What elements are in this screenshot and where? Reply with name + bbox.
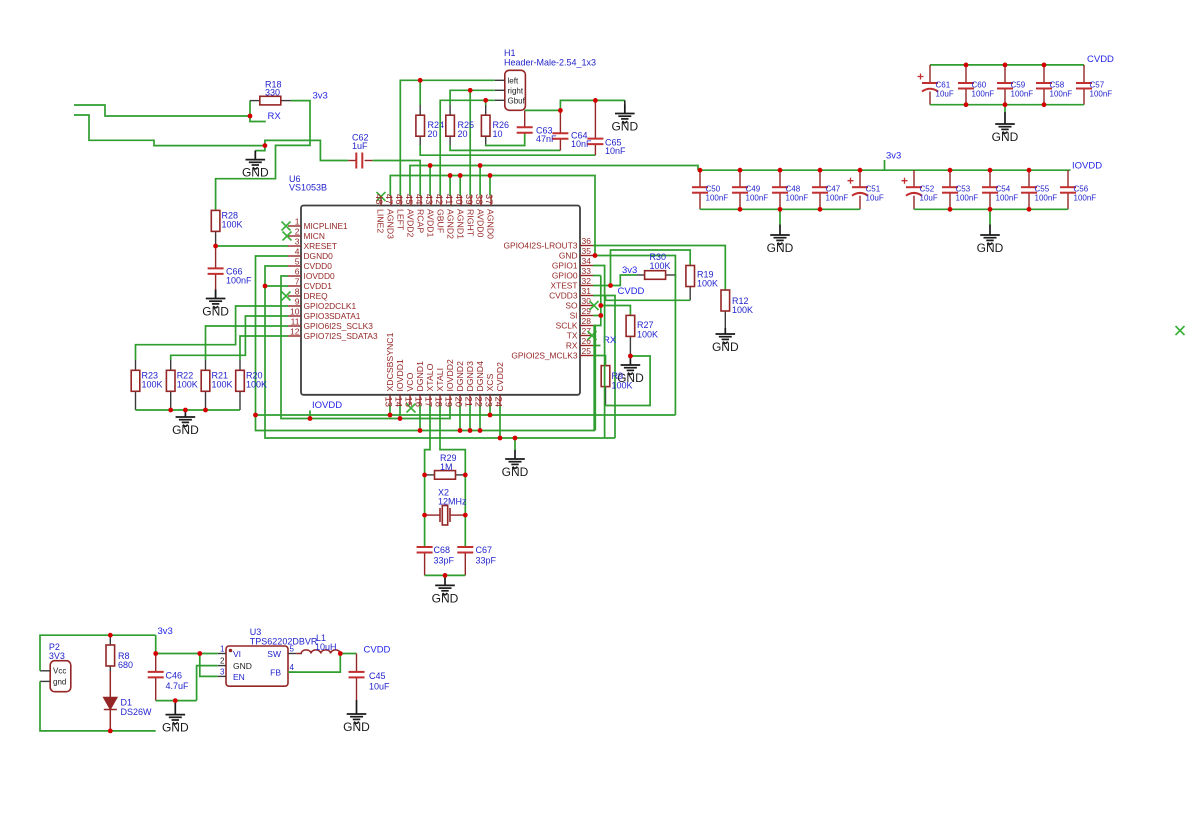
resistor R25 leads <box>449 105 451 115</box>
svg-text:GPIO6I2S_SCLK3: GPIO6I2S_SCLK3 <box>304 321 374 331</box>
svg-text:SW: SW <box>267 649 281 659</box>
capacitor C56 leads <box>1067 170 1069 187</box>
resistor R30 <box>645 271 666 280</box>
junction - pin40 AGND1 <box>458 173 463 178</box>
svg-text:20: 20 <box>453 397 464 408</box>
wire - RCAP net C62 to pin 44 <box>373 161 421 196</box>
svg-text:GND: GND <box>432 591 459 605</box>
no-connect X pin 15 VCO <box>407 404 416 413</box>
junction - pin38 AVDD0 <box>478 163 483 168</box>
junction - pin29 SI <box>598 313 603 318</box>
capacitor C65 leads <box>594 100 596 138</box>
junction - C50 top <box>698 168 703 173</box>
svg-text:100nF: 100nF <box>826 194 849 203</box>
junction - W0 left <box>253 413 258 418</box>
svg-text:MICPLINE1: MICPLINE1 <box>304 221 349 231</box>
wire - U3 GND pin down <box>197 666 218 701</box>
junction <box>988 207 993 212</box>
svg-text:right: right <box>508 87 524 96</box>
junction - X2 right <box>463 513 468 518</box>
ground (header caps) <box>615 105 635 123</box>
resistor R18 <box>260 96 281 105</box>
svg-text:AGND1: AGND1 <box>456 209 466 239</box>
wire - pin 13 drop <box>389 405 391 415</box>
junction - C51 top <box>858 168 863 173</box>
svg-text:MICN: MICN <box>304 231 325 241</box>
wire - 3v3 label stub <box>884 160 886 170</box>
wire - gnd bottom rail from P2 gnd <box>40 681 156 731</box>
svg-text:100nF: 100nF <box>786 194 809 203</box>
wire - cap ground bus to GND <box>560 100 624 110</box>
wire - to C45/CVDD <box>340 653 356 655</box>
wire - pin 41 drop <box>449 176 451 196</box>
wire - IOVDD label stub <box>309 411 311 419</box>
junction <box>948 207 953 212</box>
svg-text:GBUF: GBUF <box>436 209 446 233</box>
no-connect X pin 27 TX <box>588 331 597 340</box>
wire - 3v3 top rail from P2 Vcc <box>40 635 156 671</box>
junction - R29 left <box>422 473 427 478</box>
svg-text:100nF: 100nF <box>1090 90 1113 99</box>
wire - pin 28 SCLK <box>593 325 595 327</box>
wire - pin 23 drop <box>489 405 491 415</box>
junction - C49 top <box>738 168 743 173</box>
wire - XTEST to R30 left / 3v3 <box>611 275 638 286</box>
junction <box>778 207 783 212</box>
svg-text:VS1053B: VS1053B <box>289 183 327 193</box>
svg-text:35: 35 <box>582 246 592 256</box>
svg-text:AVDD0: AVDD0 <box>476 209 486 237</box>
svg-text:2: 2 <box>220 657 225 666</box>
capacitor C57 <box>1076 83 1092 89</box>
svg-text:C53: C53 <box>956 185 971 194</box>
resistor R8 <box>106 645 115 666</box>
resistor R24 leads <box>419 105 421 115</box>
U6 top pin names <box>376 209 496 239</box>
svg-text:GPIO4I2S-LROUT3: GPIO4I2S-LROUT3 <box>503 241 577 251</box>
wire - GPIO2 pin9 to R23 <box>136 306 289 360</box>
svg-text:D1: D1 <box>121 698 133 708</box>
svg-text:CVDD: CVDD <box>364 645 391 656</box>
junction - C55 top <box>1027 168 1032 173</box>
svg-text:XDCSBSYNC1: XDCSBSYNC1 <box>385 332 395 391</box>
svg-text:3v3: 3v3 <box>158 626 173 637</box>
svg-text:36: 36 <box>582 236 592 246</box>
capacitor C57 leads <box>1083 65 1085 83</box>
junction - R27 bottom / GND <box>628 354 633 359</box>
resistor R30 leads <box>637 274 645 276</box>
svg-text:DGND0: DGND0 <box>304 251 334 261</box>
junction - R27 top / SO node <box>598 303 603 308</box>
svg-text:100nF: 100nF <box>1035 194 1058 203</box>
wire - CVDD rail bottom <box>930 104 1084 106</box>
wire - pin 14 drop <box>399 405 401 419</box>
svg-text:GND: GND <box>343 720 370 734</box>
resistor R20 <box>236 370 245 391</box>
junction - D1 bottom <box>108 729 113 734</box>
svg-text:100K: 100K <box>637 330 658 340</box>
svg-text:GND: GND <box>502 465 529 479</box>
svg-text:C67: C67 <box>476 545 493 555</box>
junction <box>818 207 823 212</box>
resistor R26 <box>481 115 490 136</box>
svg-text:5: 5 <box>290 645 295 654</box>
svg-text:100nF: 100nF <box>1011 90 1034 99</box>
svg-text:C58: C58 <box>1050 81 1065 90</box>
junction - C59 top <box>1003 63 1008 68</box>
svg-text:AGND3: AGND3 <box>386 209 396 239</box>
resistor R29 leads <box>425 474 435 476</box>
capacitor C47 <box>812 187 828 193</box>
svg-text:1: 1 <box>295 217 300 227</box>
wire - pin 43 drop <box>429 166 431 196</box>
svg-text:100nF: 100nF <box>746 194 769 203</box>
junction - GND net <box>263 143 268 148</box>
capacitor C62 <box>356 153 362 169</box>
wire - right channel after R25 to C64 <box>450 145 560 150</box>
svg-text:DGND3: DGND3 <box>465 361 475 392</box>
capacitor C62 leads <box>348 160 356 162</box>
ground (CVDD bank) <box>995 112 1015 133</box>
svg-text:3v3: 3v3 <box>622 265 637 276</box>
junction - C48 top <box>778 168 783 173</box>
svg-text:32: 32 <box>582 276 592 286</box>
no-connect X pin 2 MICN <box>283 232 292 241</box>
svg-text:IOVDD: IOVDD <box>1072 161 1102 172</box>
U6 bottom pin stubs <box>390 395 500 405</box>
no-connect X pin 8 DREQ <box>282 292 291 301</box>
junction - pin20 DGND <box>458 428 463 433</box>
wire - 3v3 down to VI rail <box>155 635 157 653</box>
ground (R20-R23) <box>176 410 196 426</box>
svg-text:100nF: 100nF <box>1074 194 1097 203</box>
junction - C58 top <box>1042 63 1047 68</box>
wire - RX label stub <box>250 116 266 122</box>
capacitor C65 <box>587 139 603 145</box>
svg-text:3v3: 3v3 <box>313 91 328 102</box>
svg-text:33pF: 33pF <box>434 556 455 566</box>
svg-text:C60: C60 <box>972 81 987 90</box>
capacitor C68 leads <box>424 553 426 576</box>
svg-text:C49: C49 <box>746 185 761 194</box>
svg-text:CVDD2: CVDD2 <box>495 362 505 392</box>
svg-text:U3: U3 <box>250 627 262 637</box>
U6 left pin stubs <box>288 226 301 336</box>
svg-text:1: 1 <box>220 645 225 654</box>
wire - pin 21 drop <box>469 405 471 431</box>
svg-text:20: 20 <box>458 129 468 139</box>
svg-text:42: 42 <box>433 194 444 205</box>
resistor R23 leads <box>135 360 137 370</box>
svg-text:DGND2: DGND2 <box>455 361 465 392</box>
junction - pin22 DGND <box>478 428 483 433</box>
capacitor C50 <box>692 187 708 193</box>
svg-text:28: 28 <box>582 316 592 326</box>
wire - XTEST to R19 top <box>611 250 691 286</box>
svg-text:17: 17 <box>423 397 434 408</box>
svg-text:AVDD2: AVDD2 <box>406 209 416 237</box>
ground (top left) <box>246 151 266 169</box>
resistor R12 leads <box>724 311 726 333</box>
wire - GND pin35 to W0 right riser <box>593 256 675 416</box>
svg-text:CVDD3: CVDD3 <box>549 291 578 301</box>
capacitor C63 <box>517 127 533 133</box>
svg-text:SCLK: SCLK <box>556 321 578 331</box>
wire - GND symbol stub <box>255 146 265 151</box>
no-connect X pin 30 SO <box>590 301 599 310</box>
svg-text:GND: GND <box>202 305 229 319</box>
svg-text:GND: GND <box>712 340 739 354</box>
resistor R28 <box>211 210 220 231</box>
wire - GND net from off-page to junction <box>74 115 265 146</box>
junction - ground stub <box>183 408 188 413</box>
wire - RX net from off-page to R18 junction <box>74 105 250 116</box>
resistor R28 leads <box>215 231 217 246</box>
junction - pin 35 GND <box>593 253 598 258</box>
capacitor C49 <box>732 187 748 193</box>
svg-text:C54: C54 <box>996 185 1011 194</box>
svg-text:RX: RX <box>566 341 578 351</box>
svg-text:XTALO: XTALO <box>425 363 435 391</box>
svg-text:5: 5 <box>295 257 300 267</box>
wire - 3v3 net from R18 to R28 <box>216 101 310 211</box>
svg-text:3v3: 3v3 <box>886 151 901 162</box>
svg-text:XCS: XCS <box>485 373 495 391</box>
resistor R25 <box>446 115 455 136</box>
svg-text:25: 25 <box>582 346 592 356</box>
svg-text:DS26W: DS26W <box>121 707 153 717</box>
svg-text:GND: GND <box>559 251 578 261</box>
svg-text:GND: GND <box>233 661 252 671</box>
svg-text:10uF: 10uF <box>866 194 884 203</box>
svg-text:LEFT: LEFT <box>396 209 406 231</box>
wire - serial bus riser <box>595 296 601 431</box>
svg-text:100nF: 100nF <box>1050 90 1073 99</box>
junction - pin23 XCS <box>488 413 493 418</box>
wire - R27 top <box>601 306 631 316</box>
wire - C63 top to C64 top <box>525 109 561 111</box>
junction - crystal GND <box>443 573 448 578</box>
junction - pin37 AGND0 <box>488 173 493 178</box>
svg-text:330: 330 <box>265 88 280 98</box>
capacitor C46 leads <box>155 654 157 672</box>
svg-text:40: 40 <box>453 194 464 205</box>
wire - IOVDD rail <box>698 169 1071 171</box>
capacitor C68 <box>417 547 433 553</box>
junction - R26 top on GBUF net <box>483 98 488 103</box>
svg-text:100K: 100K <box>612 381 633 391</box>
svg-text:100K: 100K <box>650 261 671 271</box>
wire - pin 39 RIGHT riser <box>469 90 471 195</box>
U6 bottom pin names <box>385 332 505 391</box>
svg-text:IOVDD: IOVDD <box>312 400 342 411</box>
junction - C59 bottom <box>1003 102 1008 107</box>
wire - GPIO7 pin12 to R20 <box>240 336 288 360</box>
wire - bank1 bottom rail <box>700 208 860 210</box>
capacitor C48 <box>772 187 788 193</box>
svg-text:C57: C57 <box>1090 81 1105 90</box>
svg-text:C56: C56 <box>1074 185 1089 194</box>
resistor R9 leads <box>605 387 607 406</box>
capacitor C52 <box>902 178 923 196</box>
wire - CVDD bus pin5 / W3 <box>265 266 615 438</box>
capacitor C64 <box>552 133 568 139</box>
svg-text:GPIO7I2S_SDATA3: GPIO7I2S_SDATA3 <box>304 331 379 341</box>
junction - IOVDD label <box>308 416 313 421</box>
wire - DGND bus pin4 / W2 <box>256 256 595 431</box>
svg-text:45: 45 <box>403 194 414 205</box>
svg-text:10uF: 10uF <box>920 194 938 203</box>
svg-text:10uF: 10uF <box>369 682 390 692</box>
svg-text:CVDD0: CVDD0 <box>304 261 333 271</box>
capacitor C51 <box>848 178 869 196</box>
wire - crystal ground rail <box>425 574 466 576</box>
svg-text:43: 43 <box>423 194 434 205</box>
junction <box>1027 207 1032 212</box>
svg-text:31: 31 <box>582 286 592 296</box>
svg-text:10uH: 10uH <box>315 642 337 652</box>
wire - W3 to ground <box>514 438 516 450</box>
svg-text:XTEST: XTEST <box>551 281 578 291</box>
svg-text:R9: R9 <box>612 371 624 381</box>
resistor R27 leads <box>629 336 631 356</box>
capacitor C54 <box>982 187 998 193</box>
resistor R20 leads <box>239 360 241 370</box>
capacitor C54 leads <box>989 170 991 187</box>
svg-text:AGND0: AGND0 <box>486 209 496 239</box>
svg-text:41: 41 <box>443 194 454 205</box>
capacitor C61 leads <box>929 65 931 83</box>
junction - pin39 RIGHT on right net <box>468 88 473 93</box>
svg-text:44: 44 <box>413 194 424 205</box>
connector P2 body <box>50 661 71 692</box>
junction - R24 top on left net <box>418 78 423 83</box>
wire - pin33 GPIO0 riser upper <box>600 276 602 296</box>
svg-text:GND: GND <box>767 241 794 255</box>
svg-text:10: 10 <box>493 129 503 139</box>
junction - XTEST node <box>608 283 613 288</box>
svg-text:C48: C48 <box>786 185 801 194</box>
resistor R23 <box>131 370 140 391</box>
svg-text:GPIO1: GPIO1 <box>552 261 578 271</box>
svg-text:100K: 100K <box>246 380 267 390</box>
resistor R29 <box>435 471 456 480</box>
wire - VI wire <box>156 653 218 655</box>
wire - right net (header to R25) <box>450 90 495 105</box>
svg-text:100K: 100K <box>222 220 243 230</box>
svg-text:DGND4: DGND4 <box>475 361 485 392</box>
svg-text:16: 16 <box>413 397 424 408</box>
svg-text:22: 22 <box>473 397 484 408</box>
svg-text:C47: C47 <box>826 185 841 194</box>
junction - C58 bottom <box>1042 102 1047 107</box>
junction - C54 top <box>988 168 993 173</box>
wire - R19 bottom to CVDD3 <box>606 296 691 301</box>
resistor R24 <box>416 115 425 136</box>
svg-text:100K: 100K <box>697 279 718 289</box>
no-connect X pin 1 MICPLINE1 <box>282 222 291 231</box>
svg-text:TX: TX <box>567 331 578 341</box>
capacitor C53 leads <box>949 170 951 187</box>
wire - pin 37 drop <box>489 176 491 196</box>
junction - C65 top <box>593 98 598 103</box>
junction - pin41 AGND2 <box>448 173 453 178</box>
junction - power gnd stub <box>173 698 178 703</box>
wire - pin 24 drop <box>499 405 501 438</box>
svg-text:Gbuf: Gbuf <box>508 97 526 106</box>
U6 top pin numbers <box>373 194 494 205</box>
U6 right pin names <box>503 241 577 361</box>
U6 left pin numbers <box>290 217 300 337</box>
wire - pin31 CVDD3 / CVDD riser <box>593 296 615 439</box>
junction - C60 bottom <box>964 102 969 107</box>
wire - pin 25 MCLK3 to R9 <box>593 356 606 366</box>
wire - R24 top <box>419 80 421 105</box>
capacitor C63 leads <box>524 110 526 127</box>
capacitor C67 leads <box>464 553 466 576</box>
wire - R9 bottom loop to GND node <box>606 356 651 406</box>
svg-text:100nF: 100nF <box>706 194 729 203</box>
wire - pin 26 RX stub <box>593 345 601 347</box>
svg-text:CVDD1: CVDD1 <box>304 281 333 291</box>
wire - GPIO3 pin10 to R22 <box>171 316 288 360</box>
svg-text:left: left <box>508 77 519 86</box>
wire - pin 22 drop <box>479 405 481 431</box>
svg-text:DGND1: DGND1 <box>415 361 425 392</box>
svg-text:37: 37 <box>483 194 494 205</box>
ground lead (C66) <box>215 290 217 299</box>
U6 right pin stubs <box>580 246 593 356</box>
capacitor C64 leads <box>559 110 561 133</box>
U6 right pin numbers <box>582 236 592 356</box>
resistor R22 <box>166 370 175 391</box>
svg-text:GPIOI2S_MCLK3: GPIOI2S_MCLK3 <box>511 351 577 361</box>
wire - left net (pin46 LEFT to header) <box>400 80 494 195</box>
junction - pin14 IOVDD1 <box>398 416 403 421</box>
svg-text:C61: C61 <box>936 81 951 90</box>
P2 pin stubs <box>40 670 50 672</box>
junction - pin13 XDCS <box>388 413 393 418</box>
wire - AGND bus (pin47 to pin35) <box>390 176 595 256</box>
junction - R21 bottom <box>203 408 208 413</box>
svg-text:680: 680 <box>118 660 133 670</box>
svg-text:R27: R27 <box>637 320 654 330</box>
wire - R30 right to riser <box>674 275 676 278</box>
svg-text:Vcc: Vcc <box>53 667 66 676</box>
capacitor C45 leads <box>356 654 358 672</box>
junction - pin16 DGND1 <box>418 428 423 433</box>
svg-text:23: 23 <box>483 397 494 408</box>
svg-text:FB: FB <box>270 668 281 678</box>
wire - GND net to C62 left <box>265 140 348 160</box>
U6 left pin names <box>304 221 379 341</box>
svg-text:GPIO0: GPIO0 <box>552 271 578 281</box>
svg-text:LINE2: LINE2 <box>376 209 386 233</box>
svg-text:VCO: VCO <box>405 372 415 391</box>
wire - GBUF net (header to pin 42) <box>440 100 495 195</box>
junction - RX net at R18 <box>248 114 253 119</box>
wire - pin 34 GPIO1 riser <box>593 266 605 439</box>
wire - CVDD bank gnd stub <box>1004 105 1006 112</box>
wire - R26 top <box>485 100 487 105</box>
svg-text:GND: GND <box>242 166 269 180</box>
junction - C60 top <box>964 63 969 68</box>
svg-text:100nF: 100nF <box>226 276 252 286</box>
IC U6 VS1053B body <box>301 206 580 395</box>
ground (W3) <box>505 450 525 468</box>
svg-text:24: 24 <box>493 397 504 408</box>
resistor R27 <box>626 315 635 336</box>
